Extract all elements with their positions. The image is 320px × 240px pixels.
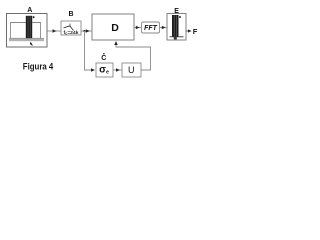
block A base slab <box>9 38 44 41</box>
svg-text:C: C <box>101 55 106 62</box>
display E bar stripes <box>173 15 175 36</box>
arrowhead C to U <box>116 68 120 72</box>
wire C to U <box>113 69 122 71</box>
junction tap on B-D wire <box>84 30 86 32</box>
block A cursor mark below slab <box>30 42 33 46</box>
wire D to FFT <box>134 27 141 29</box>
arrowhead E to F <box>188 29 192 32</box>
display E box <box>167 14 186 41</box>
arrowhead A to B <box>53 29 57 33</box>
display E spectrum bar <box>172 15 179 37</box>
amplifier U box <box>122 63 141 77</box>
FFT box <box>142 22 160 33</box>
block A slab top edge <box>9 37 44 39</box>
block A inner chamber <box>11 23 41 40</box>
svg-text:fc=24k: fc=24k <box>64 30 79 36</box>
arrowhead into C <box>91 68 95 72</box>
arrowhead into D bottom <box>114 41 118 45</box>
arrowhead D to FFT <box>136 26 140 29</box>
block A outer box <box>7 14 48 48</box>
display E pedestal <box>174 37 177 39</box>
block A bar tip label tick <box>33 16 35 18</box>
svg-text:U: U <box>128 65 135 75</box>
svg-text:σ: σ <box>99 65 106 76</box>
block A sample bar stripes <box>27 16 29 38</box>
svg-text:F: F <box>193 27 198 36</box>
arrowhead FFT to E <box>162 26 166 29</box>
arrowhead B to D <box>86 29 90 33</box>
svg-text:FFT: FFT <box>144 25 158 32</box>
feedback wire U to D bottom <box>116 42 151 70</box>
svg-text:e: e <box>106 70 109 76</box>
svg-text:Figura 4: Figura 4 <box>23 62 54 72</box>
background <box>0 0 200 83</box>
wire tap down to C <box>85 31 95 70</box>
display E baseline <box>170 36 184 38</box>
svg-text:B: B <box>68 11 73 18</box>
block A sample bar <box>26 16 32 38</box>
svg-text:A: A <box>27 7 32 14</box>
wire FFT to E <box>160 27 168 29</box>
label C tick <box>103 53 104 54</box>
filter B response curve <box>64 26 74 30</box>
processor D box <box>92 14 134 40</box>
wire E to F <box>186 30 190 32</box>
svg-text:E: E <box>174 8 179 15</box>
wire B to D <box>81 30 92 32</box>
generator C box <box>96 63 113 77</box>
filter B cutoff tick <box>69 24 71 27</box>
wire A to B <box>47 30 61 32</box>
filter B box <box>61 21 81 35</box>
svg-text:D: D <box>111 22 119 34</box>
display E bar tip tick <box>179 16 181 18</box>
